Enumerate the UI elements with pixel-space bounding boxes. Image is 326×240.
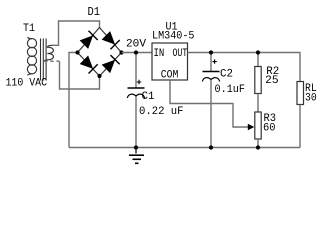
capacitor C2 plus sign — [212, 59, 216, 63]
op regulator U1 box — [152, 43, 188, 80]
svg-text:0.22 uF: 0.22 uF — [139, 106, 184, 118]
svg-text:C2: C2 — [220, 69, 233, 81]
junction node bridge bottom — [97, 74, 101, 78]
capacitor C1 top plate — [128, 87, 145, 89]
wire secondary bottom dashed stub — [44, 60, 60, 62]
svg-text:LM340-5: LM340-5 — [152, 30, 195, 42]
svg-text:T1: T1 — [23, 23, 35, 35]
wire RL bottom to ground rail — [299, 105, 301, 148]
diode upper-right (top node to right node) — [102, 31, 120, 49]
junction node C2 bottom — [209, 145, 213, 149]
transformer T1 core — [41, 39, 47, 81]
capacitor C2 top wire — [210, 53, 212, 72]
diode lower-left (left node to bottom node) — [80, 55, 98, 73]
arrowhead at R3 wiper — [248, 124, 255, 130]
svg-text:25: 25 — [265, 75, 279, 87]
resistor R2 — [255, 67, 261, 94]
wire secondary bottom to bridge bottom — [60, 61, 100, 89]
wire secondary top to bridge top — [52, 21, 100, 45]
capacitor C2 top plate — [203, 71, 220, 73]
transformer T1 primary winding — [27, 37, 36, 75]
svg-text:D1: D1 — [88, 5, 101, 19]
junction node bridge left — [75, 50, 79, 54]
wire R3 bottom to ground rail — [257, 139, 259, 148]
resistor R3 — [255, 112, 261, 139]
wire 20V rail bridge to regulator — [122, 52, 153, 54]
junction node ground — [134, 145, 138, 149]
svg-text:0.1uF: 0.1uF — [215, 84, 246, 96]
wire output rail to RL — [188, 53, 301, 82]
transformer T1 secondary winding — [44, 45, 53, 61]
diode lower-right (bottom node to right node) — [102, 55, 120, 73]
junction node C2 top — [209, 50, 213, 54]
ground symbol — [129, 148, 144, 164]
resistor RL — [297, 82, 304, 105]
junction node bridge right — [119, 50, 123, 54]
svg-text:COM: COM — [161, 69, 179, 81]
wire R2 top — [257, 53, 259, 67]
svg-text:110 VAC: 110 VAC — [6, 78, 48, 90]
svg-text:60: 60 — [263, 122, 276, 134]
svg-text:20V: 20V — [126, 38, 146, 50]
capacitor C2 bottom wire to ground rail — [210, 80, 212, 148]
wire COM pin down right to R3 arrow — [170, 80, 250, 127]
svg-text:IN: IN — [154, 48, 165, 60]
capacitor C2 curved plate — [202, 78, 219, 82]
capacitor C1 curved plate — [127, 94, 144, 98]
diode upper-left (left node to top node) — [80, 31, 98, 49]
wire R2 bottom to R3 top — [257, 94, 259, 113]
svg-text:C1: C1 — [142, 91, 155, 103]
bridge rectifier D1 diamond — [78, 28, 122, 77]
capacitor C1 top wire — [135, 53, 137, 89]
junction node R2 top — [256, 50, 260, 54]
junction node C1 top — [134, 50, 138, 54]
svg-text:OUT: OUT — [173, 48, 188, 60]
svg-text:30: 30 — [305, 92, 317, 104]
capacitor C1 bottom wire to ground rail — [135, 96, 137, 147]
wire bridge left node to ground rail — [69, 53, 78, 148]
junction node R3 bottom — [256, 145, 260, 149]
ground rail — [69, 147, 300, 149]
capacitor C1 plus sign — [137, 80, 141, 84]
